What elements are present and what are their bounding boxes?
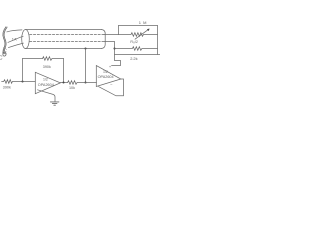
svg-text:RV/2: RV/2 — [130, 40, 138, 45]
sensor lead top — [7, 30, 22, 32]
shield drive wire — [85, 49, 87, 83]
feedback wire U1 top — [23, 58, 43, 60]
ground U1 — [38, 90, 59, 105]
svg-text:OPA2604: OPA2604 — [98, 75, 114, 79]
output line to edge — [115, 54, 161, 56]
cable inner conductor B (dashed) — [30, 41, 105, 43]
svg-text:1/2: 1/2 — [103, 70, 108, 74]
gain network top wire — [119, 25, 158, 27]
output wire U1 — [60, 82, 67, 84]
svg-text:10k: 10k — [69, 86, 75, 90]
node conductor B / 2.2k tee — [114, 48, 116, 50]
node minus input U1 — [22, 81, 24, 83]
resistor 2.2k — [115, 47, 158, 51]
svg-text:OPA2604: OPA2604 — [38, 83, 54, 87]
resistor R-input 390k — [2, 80, 36, 84]
svg-text:1/2: 1/2 — [43, 78, 48, 82]
svg-text:390k: 390k — [43, 65, 51, 69]
shielded cable body — [22, 30, 106, 49]
svg-text:−: − — [110, 81, 113, 86]
conductor B wire to op-amp U2 — [104, 42, 120, 66]
gain network right vertical — [157, 26, 159, 55]
shield junction dot — [85, 48, 87, 50]
cable inner conductor A (dashed) — [30, 34, 104, 36]
potentiometer arrow — [135, 29, 149, 39]
svg-text:1 M: 1 M — [139, 20, 147, 25]
svg-text:2.2k: 2.2k — [130, 56, 137, 61]
sensor lead bottom — [8, 43, 23, 48]
piezo film sensor — [3, 27, 7, 56]
svg-text:390k: 390k — [3, 86, 11, 90]
op-amp U1 — [35, 72, 60, 93]
gain network corner vertical — [118, 26, 120, 35]
potentiometer Rv/2 branch — [119, 33, 158, 37]
resistor 10k — [68, 81, 97, 85]
conductor A wire to gain network — [104, 34, 119, 36]
svg-text:C: C — [0, 55, 3, 61]
svg-text:+: + — [109, 64, 112, 69]
resistor 390k feedback U1 — [43, 57, 64, 61]
feedback loop U2 — [99, 79, 124, 96]
feedback loop U1 left vertical — [22, 59, 24, 82]
sensor lead mid — [8, 36, 23, 42]
feedback loop U1 right vertical — [63, 59, 65, 83]
op-amp U2 — [96, 66, 121, 87]
